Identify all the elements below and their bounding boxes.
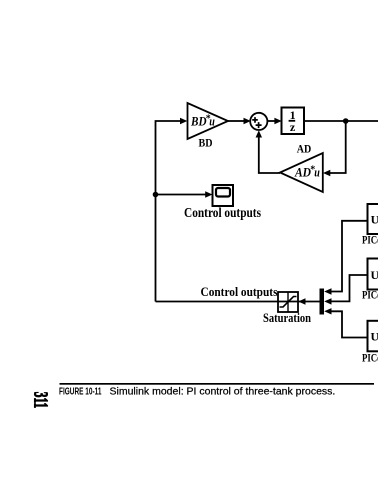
arrow into mux input 2 <box>324 298 331 304</box>
sum plus sign left <box>252 117 258 123</box>
unit delay block 1/z <box>282 108 305 135</box>
arrow into scope <box>205 191 212 197</box>
saturation block <box>278 292 298 312</box>
arrow into unit delay <box>274 118 281 124</box>
gain AD triangle <box>280 153 323 192</box>
caption rule <box>60 383 375 385</box>
svg-text:Control outputs: Control outputs <box>184 206 261 221</box>
arrow into gain AD <box>323 170 330 176</box>
svg-text:AD: AD <box>294 166 311 180</box>
arrow into mux input 1 <box>324 288 331 294</box>
svg-text:PICont: PICont <box>362 233 378 247</box>
svg-text:BD: BD <box>199 136 213 150</box>
wire AD output to sum bottom <box>259 137 280 174</box>
svg-text:AD: AD <box>297 142 312 156</box>
junction node at scope branch <box>153 192 159 198</box>
block PIController1 <box>368 204 378 234</box>
svg-text:z: z <box>290 120 296 134</box>
gain BD triangle <box>188 103 229 139</box>
wire BD to sum <box>228 120 244 122</box>
wire unit delay output to right edge <box>304 120 378 122</box>
svg-text:u: u <box>314 166 320 180</box>
wire saturation output long bottom <box>156 301 320 303</box>
arrow into gain BD <box>180 118 187 124</box>
wire PIC3 to mux <box>331 311 368 337</box>
wire PIC1 to mux <box>331 221 368 292</box>
svg-text:Control outputs: Control outputs <box>201 284 278 299</box>
wire feedback left vertical <box>156 121 181 302</box>
svg-text:PICont: PICont <box>362 288 378 302</box>
arrow into sum left <box>244 118 251 124</box>
sum plus sign bottom <box>256 122 262 128</box>
svg-text:U: U <box>371 268 378 282</box>
block PIController3 <box>368 321 378 352</box>
svg-text:FIGURE 10-11: FIGURE 10-11 <box>59 387 102 398</box>
svg-text:PICont: PICont <box>362 351 378 365</box>
svg-text:BD: BD <box>190 115 206 129</box>
wire sum to unit delay <box>267 120 275 122</box>
svg-text:U: U <box>371 330 378 344</box>
arrow into sum bottom <box>256 130 262 137</box>
svg-text:Simulink model: PI control of: Simulink model: PI control of three-tank… <box>110 386 336 398</box>
junction node on unit delay output <box>343 118 349 124</box>
svg-text:Saturation: Saturation <box>263 310 312 325</box>
wire feedback from node to AD input <box>330 121 346 173</box>
arrow into mux input 3 <box>324 308 331 314</box>
svg-text:311: 311 <box>29 392 51 408</box>
wire PIC2 to mux <box>331 275 368 301</box>
block PIController2 <box>368 259 378 290</box>
mux bar <box>320 289 325 315</box>
wire branch to scope <box>156 194 207 196</box>
arrow into saturation <box>298 298 305 304</box>
sum block circle <box>250 113 267 130</box>
svg-text:u: u <box>209 115 215 129</box>
svg-text:U: U <box>371 213 378 227</box>
scope block Control outputs <box>213 185 234 206</box>
